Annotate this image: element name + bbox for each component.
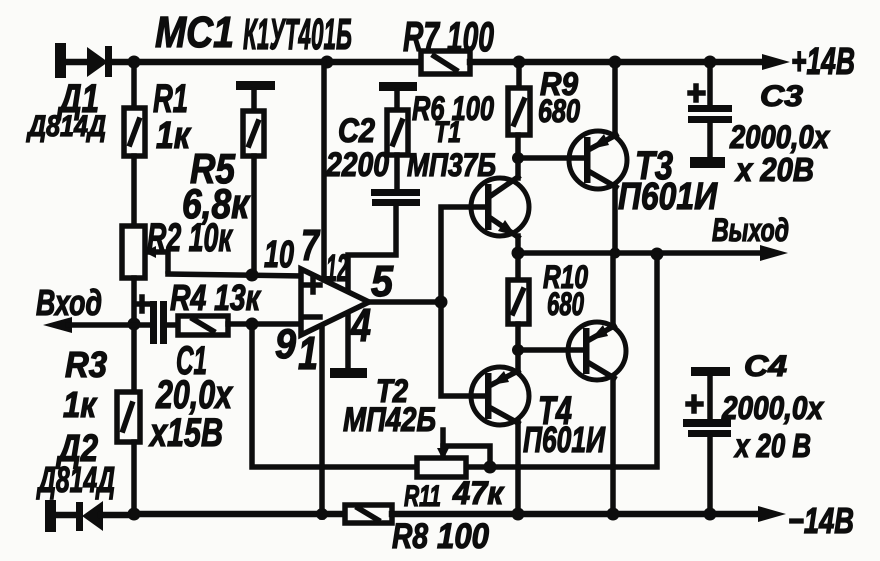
svg-text:МП42Б: МП42Б: [343, 401, 436, 439]
resistor R5 with top bar terminal: [236, 81, 275, 156]
svg-text:10: 10: [264, 234, 294, 276]
node: rail / C4: [704, 508, 717, 521]
svg-text:680: 680: [547, 286, 584, 322]
svg-text:С4: С4: [744, 350, 787, 383]
input arrow Vhod: [43, 317, 150, 333]
node: pin9 / feedback: [246, 318, 259, 331]
node B: T1 emitter / R10 / output line: [512, 247, 525, 260]
svg-text:100: 100: [437, 517, 489, 556]
svg-text:х15В: х15В: [148, 411, 223, 455]
node: pin10 / R5: [246, 269, 259, 282]
node: output / T3-T4 collectors: [610, 248, 621, 259]
node: R11 / feedback: [484, 461, 497, 474]
node: pin7 tap on rail: [321, 56, 334, 69]
svg-text:2200: 2200: [325, 146, 389, 184]
svg-text:7: 7: [301, 221, 321, 270]
svg-text:1к: 1к: [63, 384, 98, 425]
svg-text:МП37Б: МП37Б: [407, 147, 496, 183]
transistor T4: [568, 253, 626, 514]
wire: terminal to diode D2: [54, 512, 78, 519]
svg-text:R2 10к: R2 10к: [147, 216, 233, 260]
node: output / feedback tap: [651, 248, 664, 261]
wire +14V arrow: [710, 54, 790, 70]
node: pin1 on bottom rail: [316, 508, 328, 520]
svg-text:Т1: Т1: [434, 116, 461, 149]
svg-text:680: 680: [538, 93, 580, 129]
wire: T3 base: [518, 155, 586, 161]
node A: R9 / T3 base / T1 collector: [512, 152, 524, 164]
bottom rail right segment: [392, 511, 762, 518]
wire: top rail left segment: [134, 59, 421, 66]
svg-text:Д814Д: Д814Д: [36, 459, 115, 500]
transistor T3: [569, 62, 627, 253]
svg-text:П601И: П601И: [618, 176, 718, 218]
wire: R4 to pin9 node: [228, 321, 301, 327]
svg-text:С2: С2: [338, 112, 375, 150]
wire: rail to R1: [131, 62, 137, 108]
wire: pin 4 to bar terminal: [330, 308, 367, 378]
svg-text:47к: 47к: [452, 475, 505, 511]
resistor R8: [345, 505, 392, 523]
svg-text:12: 12: [326, 248, 348, 290]
svg-text:9: 9: [275, 320, 297, 367]
node: rail / C3: [704, 56, 717, 69]
resistor R3: [117, 392, 140, 442]
svg-text:+14В: +14В: [791, 41, 855, 83]
svg-text:R11: R11: [404, 480, 441, 513]
resistor R9: [508, 62, 530, 135]
node C: R10 / T4 base / T2 emitter: [512, 344, 524, 356]
svg-text:С3: С3: [760, 80, 803, 113]
svg-text:Вход: Вход: [36, 282, 102, 323]
wire: rail T3 node to C3 node: [615, 59, 710, 66]
svg-text:МС1: МС1: [155, 8, 234, 57]
resistor R7: [421, 51, 470, 74]
resistor R4: [178, 316, 228, 335]
bottom rail left segment: [134, 511, 345, 518]
diode D1: [87, 46, 133, 77]
node: rail / R9: [513, 56, 526, 69]
node: output to driver bases: [435, 296, 448, 309]
op-amp + input mark: [306, 278, 320, 292]
diode D2: [76, 501, 134, 531]
svg-text:К1УТ401Б: К1УТ401Б: [243, 10, 352, 59]
wire: R3 to bottom rail: [131, 442, 137, 514]
node: rail / T2 collector: [512, 508, 525, 521]
wire: R7 to R9 node: [470, 59, 519, 66]
wire: [441, 302, 487, 396]
output arrow head: [760, 245, 788, 261]
svg-text:1к: 1к: [156, 115, 191, 157]
wire: R2 to input node: [131, 278, 137, 392]
wire: base line T1/T2: [441, 207, 487, 302]
resistor R11 (trimmer, empty body): [417, 458, 466, 477]
capacitor C2: [371, 189, 420, 206]
svg-text:2000,0х: 2000,0х: [721, 390, 824, 426]
svg-text:Выход: Выход: [712, 212, 789, 248]
capacitor C3 (electrolytic to +rail): [688, 62, 732, 168]
-14V arrow head: [758, 506, 786, 522]
transistor T2: [471, 350, 529, 514]
wire: R1 to R2: [131, 156, 137, 226]
wire: rail R9 node to T3 node: [519, 59, 615, 66]
R2 wiper tap to pin10 net: [144, 246, 168, 271]
svg-text:R7 100: R7 100: [403, 13, 494, 60]
feedback wire from output node down: [466, 254, 657, 467]
R11 wiper tap: [437, 430, 490, 466]
svg-text:2000,0х: 2000,0х: [729, 119, 830, 155]
svg-text:1: 1: [298, 327, 318, 379]
wire: pin 7 supply from rail: [321, 62, 327, 278]
svg-text:х 20 В: х 20 В: [733, 427, 811, 464]
wire: R9 to node A: [515, 135, 521, 158]
node: D2 / R3 on bottom rail: [128, 508, 141, 521]
node: D1 / R1 junction: [128, 56, 141, 69]
resistor R6 with top bar terminal: [379, 82, 417, 155]
svg-text:Д814Д: Д814Д: [25, 110, 106, 143]
svg-text:R3: R3: [65, 344, 107, 385]
input terminal bottom-left: [45, 500, 56, 532]
resistor R10: [508, 253, 529, 350]
svg-text:х 20В: х 20В: [734, 151, 814, 188]
svg-text:П601И: П601И: [523, 419, 606, 460]
capacitor C4 (electrolytic to -rail): [683, 367, 731, 514]
op-amp U1 triangle: [301, 269, 369, 335]
svg-text:5: 5: [371, 257, 393, 306]
wire: C1 to R4: [167, 322, 178, 328]
wire: feedback node down and to R11: [252, 324, 417, 467]
wire: C2 to op-amp pin 12: [348, 206, 396, 292]
wire: pin10 net: [168, 274, 301, 276]
svg-text:R4 13к: R4 13к: [170, 277, 261, 318]
node: rail / T4 collector: [607, 508, 620, 521]
svg-text:4: 4: [350, 299, 371, 351]
wire: R5 to pin10 node: [251, 156, 257, 275]
node: rail / T3 collector: [609, 56, 622, 69]
svg-text:R8: R8: [392, 517, 428, 556]
wire: T4 base: [518, 347, 584, 353]
wire: terminal to diode D1: [64, 59, 89, 66]
svg-text:−14В: −14В: [788, 500, 854, 541]
op-amp - input mark: [306, 314, 320, 320]
wire: pin 1 to bottom rail: [319, 320, 325, 517]
resistor R2 (trimmer, empty body): [122, 226, 145, 278]
wire: R6 to C2: [394, 155, 400, 190]
wire: op-amp output pin 5: [369, 299, 441, 305]
input terminal top-left: [55, 43, 66, 78]
output line: [518, 250, 767, 256]
capacitor C1 (electrolytic, + mark): [135, 297, 167, 344]
resistor R1: [124, 108, 145, 156]
transistor T1: [471, 158, 529, 253]
node: input line / divider: [128, 318, 141, 331]
